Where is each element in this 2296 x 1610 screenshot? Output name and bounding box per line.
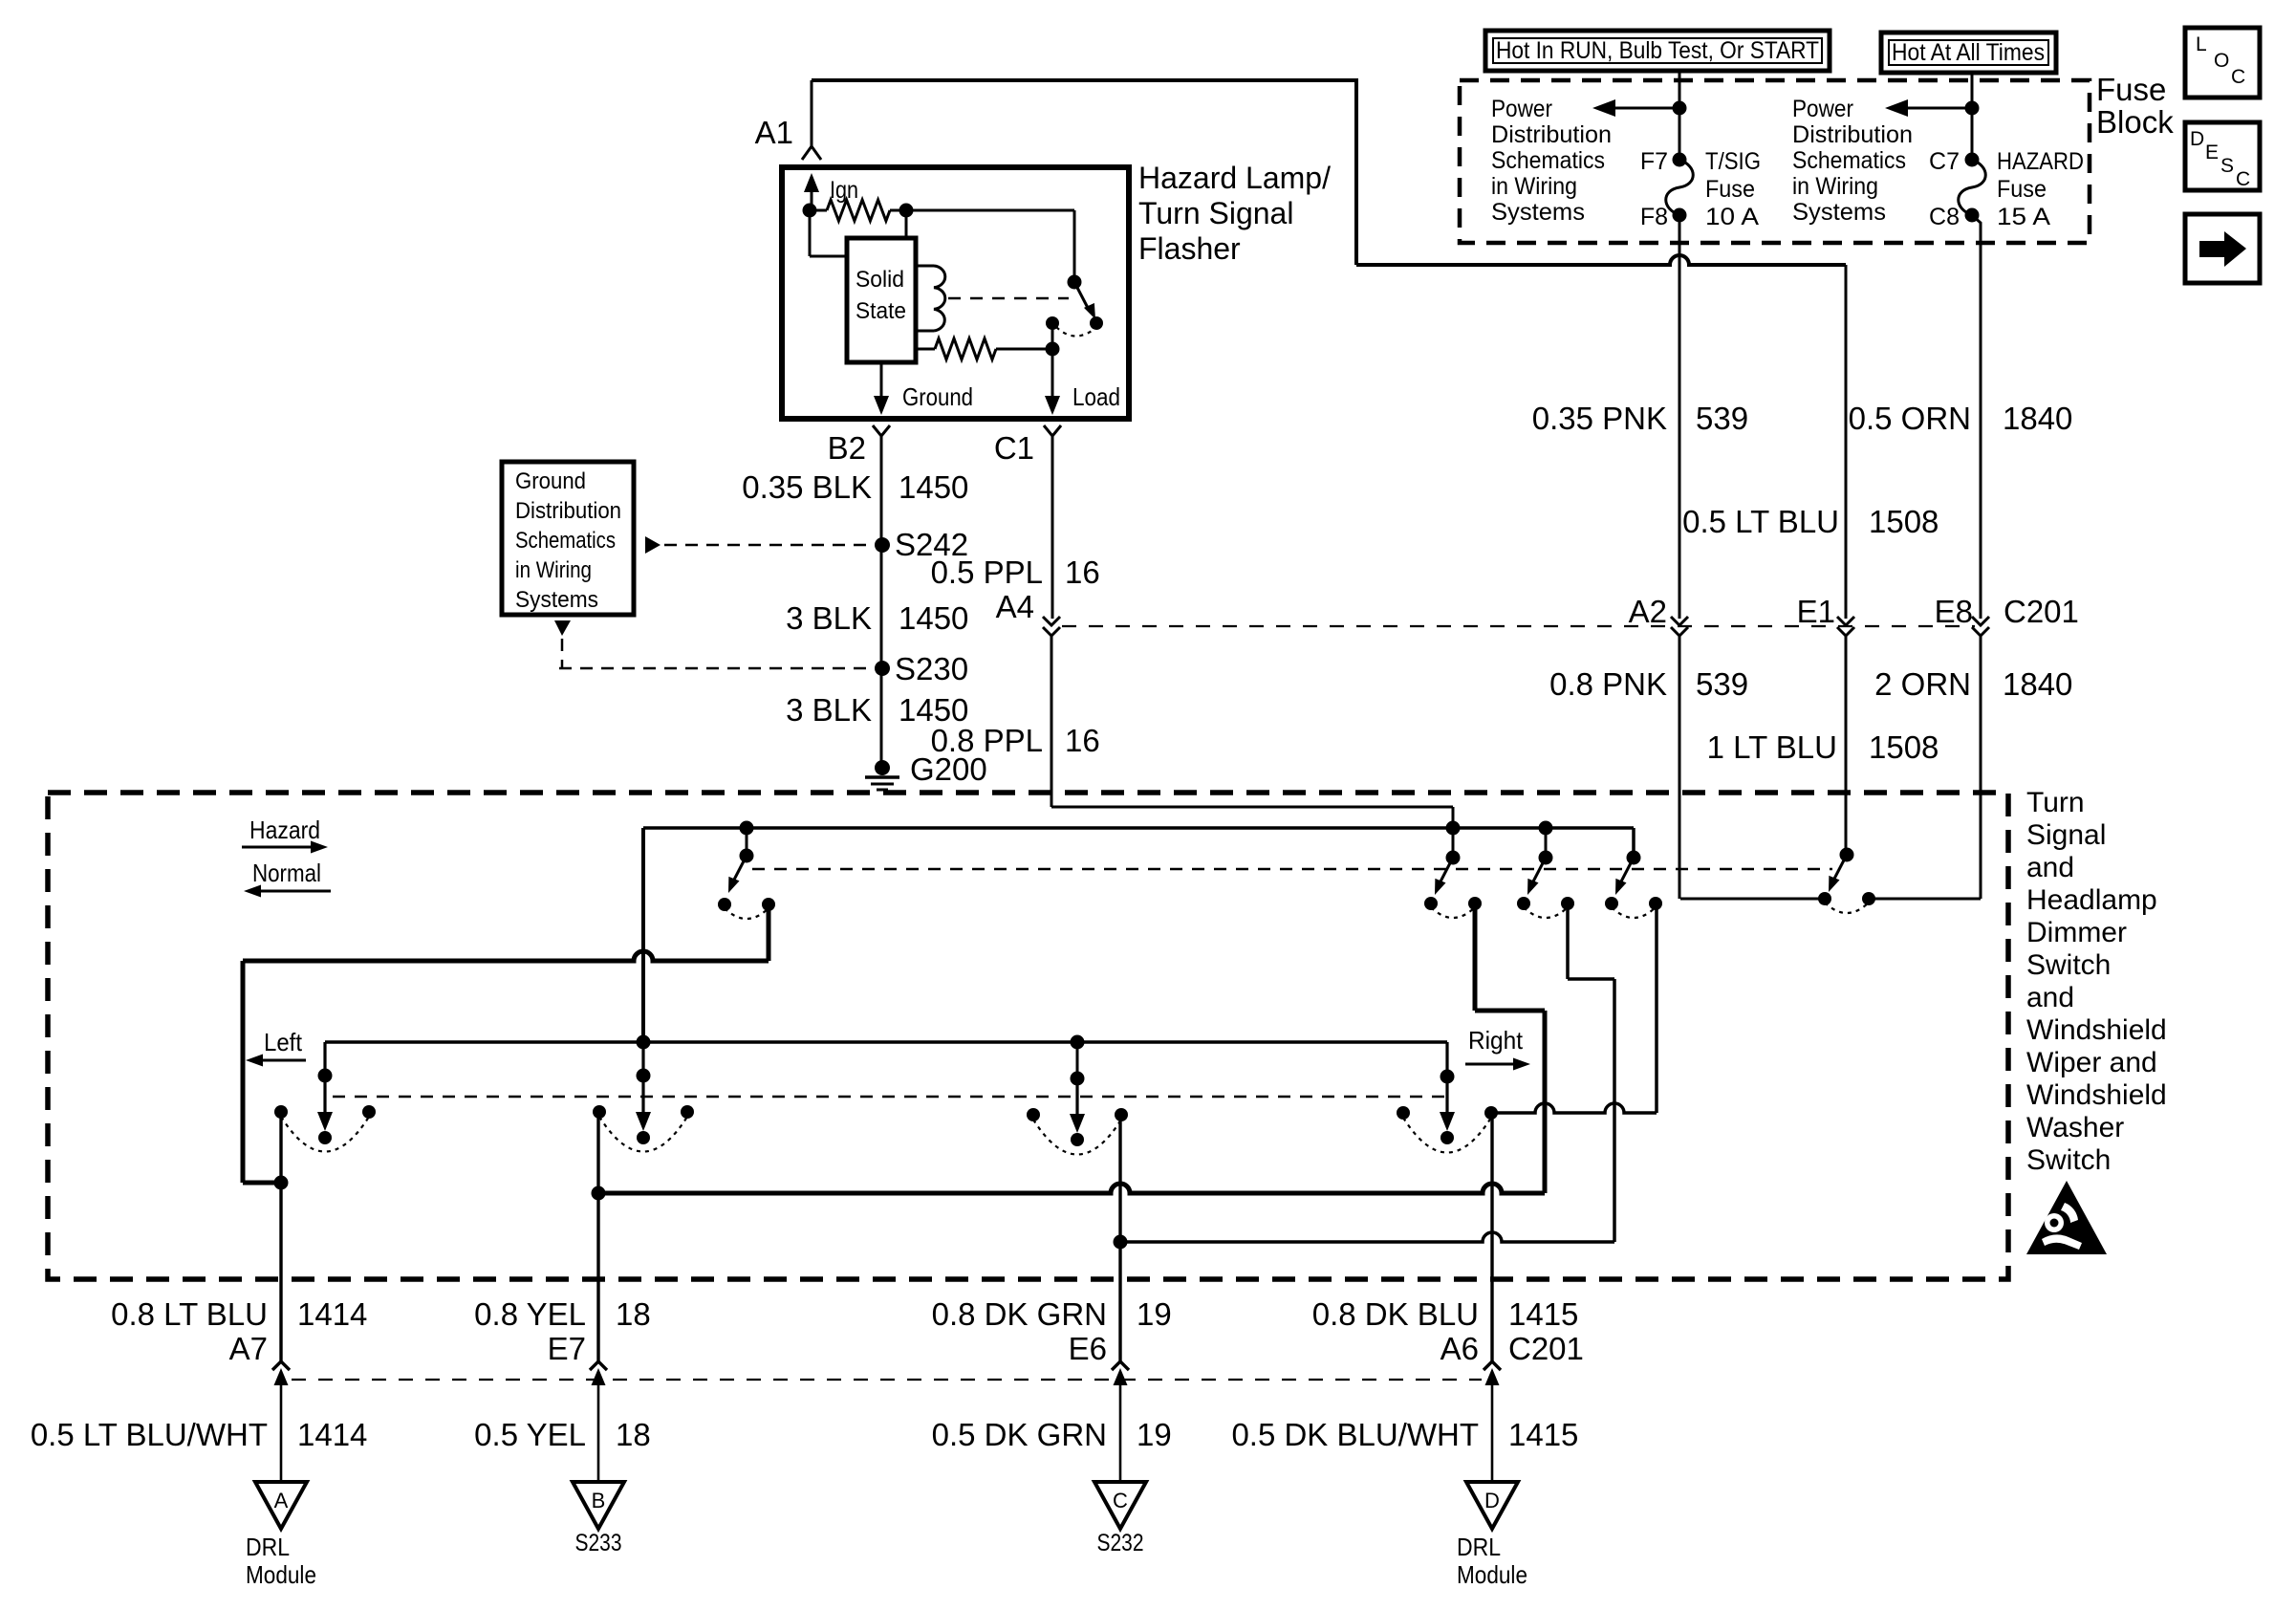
svg-text:in Wiring: in Wiring [1792,173,1878,200]
svg-text:A7: A7 [229,1331,268,1366]
svg-text:Left: Left [264,1028,303,1056]
svg-text:0.8 DK BLU: 0.8 DK BLU [1312,1296,1479,1332]
svg-text:Systems: Systems [515,587,598,613]
svg-text:T/SIG: T/SIG [1705,148,1761,175]
svg-text:0.8 PPL: 0.8 PPL [931,723,1043,758]
svg-text:1450: 1450 [899,469,968,505]
svg-text:16: 16 [1065,555,1100,590]
svg-text:1415: 1415 [1508,1417,1578,1452]
svg-text:0.5 YEL: 0.5 YEL [474,1417,586,1452]
svg-text:DRL: DRL [246,1533,290,1561]
svg-text:C8: C8 [1929,204,1960,230]
svg-text:B2: B2 [828,430,866,466]
svg-text:E7: E7 [548,1331,586,1366]
svg-text:Signal: Signal [2026,819,2106,851]
svg-text:2 ORN: 2 ORN [1874,666,1971,702]
svg-text:C: C [1113,1489,1128,1512]
svg-text:19: 19 [1137,1296,1172,1332]
svg-text:0.35 BLK: 0.35 BLK [742,469,872,505]
svg-text:539: 539 [1696,666,1748,702]
svg-text:S232: S232 [1097,1530,1144,1556]
svg-text:1415: 1415 [1508,1296,1578,1332]
svg-text:15 A: 15 A [1997,204,2050,230]
svg-text:Right: Right [1468,1026,1524,1055]
svg-text:DRL: DRL [1457,1533,1501,1561]
svg-text:Hot In RUN, Bulb Test, Or STAR: Hot In RUN, Bulb Test, Or START [1496,37,1819,64]
svg-text:18: 18 [616,1417,651,1452]
svg-text:F8: F8 [1640,204,1668,230]
svg-text:A4: A4 [996,589,1034,624]
svg-text:Flasher: Flasher [1138,231,1241,266]
svg-text:E8: E8 [1935,594,1973,629]
svg-text:Dimmer: Dimmer [2026,917,2127,948]
svg-text:Ground: Ground [515,468,586,494]
svg-text:in Wiring: in Wiring [1491,173,1577,200]
svg-text:Fuse: Fuse [1705,176,1755,203]
svg-text:Distribution: Distribution [515,498,621,524]
svg-text:Fuse: Fuse [1997,176,2047,203]
svg-text:E1: E1 [1797,594,1835,629]
svg-text:D: D [1484,1489,1500,1512]
svg-text:F7: F7 [1640,148,1668,175]
svg-text:1840: 1840 [2003,401,2072,436]
svg-text:Hot At All Times: Hot At All Times [1892,39,2045,66]
svg-text:1414: 1414 [297,1417,367,1452]
svg-text:A1: A1 [755,115,793,150]
svg-text:Fuse: Fuse [2096,72,2166,107]
svg-text:and: and [2026,982,2074,1013]
svg-text:D: D [2190,128,2204,150]
svg-text:Schematics: Schematics [1792,147,1906,174]
svg-text:Wiper and: Wiper and [2026,1047,2157,1078]
svg-text:16: 16 [1065,723,1100,758]
svg-text:L: L [2196,33,2207,55]
svg-text:Module: Module [246,1560,316,1589]
svg-text:Power: Power [1491,96,1552,122]
svg-text:Ground: Ground [902,382,973,411]
svg-text:S: S [2220,155,2234,177]
svg-text:A2: A2 [1629,594,1667,629]
svg-text:1508: 1508 [1869,729,1939,765]
svg-text:Block: Block [2096,104,2174,140]
svg-text:Distribution: Distribution [1491,121,1612,148]
svg-text:C201: C201 [1508,1331,1584,1366]
svg-text:C201: C201 [2004,594,2079,629]
svg-text:Distribution: Distribution [1792,121,1913,148]
svg-text:3 BLK: 3 BLK [786,692,872,728]
svg-text:E: E [2205,141,2219,163]
svg-text:State: State [856,298,906,324]
svg-text:E6: E6 [1069,1331,1107,1366]
svg-text:0.8 LT BLU: 0.8 LT BLU [111,1296,268,1332]
svg-text:A6: A6 [1440,1331,1479,1366]
svg-text:1840: 1840 [2003,666,2072,702]
svg-text:O: O [2214,50,2229,72]
svg-text:HAZARD: HAZARD [1997,148,2084,175]
svg-text:A: A [274,1489,289,1512]
svg-text:0.5 LT BLU: 0.5 LT BLU [1682,504,1839,539]
svg-text:0.5 DK BLU/WHT: 0.5 DK BLU/WHT [1231,1417,1479,1452]
svg-text:C: C [2236,168,2250,190]
svg-text:Headlamp: Headlamp [2026,884,2157,916]
svg-text:Switch: Switch [2026,949,2111,981]
svg-text:Hazard: Hazard [249,816,320,844]
svg-text:Washer: Washer [2026,1112,2124,1143]
svg-text:C1: C1 [994,430,1034,466]
svg-text:Systems: Systems [1792,199,1886,226]
svg-text:and: and [2026,852,2074,883]
svg-text:Switch: Switch [2026,1144,2111,1176]
svg-text:1414: 1414 [297,1296,367,1332]
svg-text:0.8 DK GRN: 0.8 DK GRN [932,1296,1107,1332]
svg-text:1508: 1508 [1869,504,1939,539]
svg-text:C: C [2231,66,2245,88]
svg-text:Turn: Turn [2026,787,2085,818]
svg-text:18: 18 [616,1296,651,1332]
svg-text:0.5 LT BLU/WHT: 0.5 LT BLU/WHT [31,1417,268,1452]
svg-text:0.5 PPL: 0.5 PPL [931,555,1043,590]
svg-text:in Wiring: in Wiring [515,557,592,583]
svg-text:S233: S233 [575,1530,622,1556]
svg-text:Schematics: Schematics [1491,147,1605,174]
svg-text:Schematics: Schematics [515,528,616,554]
svg-text:Hazard Lamp/: Hazard Lamp/ [1138,161,1331,195]
svg-text:Windshield: Windshield [2026,1079,2167,1111]
svg-text:0.8 YEL: 0.8 YEL [474,1296,586,1332]
svg-text:0.5 DK GRN: 0.5 DK GRN [932,1417,1107,1452]
svg-text:Windshield: Windshield [2026,1014,2167,1046]
svg-text:Power: Power [1792,96,1853,122]
svg-text:0.35 PNK: 0.35 PNK [1532,401,1667,436]
svg-text:1450: 1450 [899,600,968,636]
svg-text:Normal: Normal [252,859,321,887]
svg-text:3 BLK: 3 BLK [786,600,872,636]
svg-text:Ign: Ign [830,177,858,204]
svg-text:Solid: Solid [856,267,904,293]
svg-text:1 LT BLU: 1 LT BLU [1707,729,1837,765]
svg-text:Load: Load [1072,382,1120,411]
svg-text:10 A: 10 A [1705,204,1759,230]
svg-text:539: 539 [1696,401,1748,436]
svg-text:C7: C7 [1929,148,1960,175]
svg-text:B: B [592,1489,606,1512]
svg-text:0.5 ORN: 0.5 ORN [1849,401,1971,436]
svg-text:Module: Module [1457,1560,1527,1589]
svg-text:Turn Signal: Turn Signal [1138,196,1293,230]
svg-text:0.8 PNK: 0.8 PNK [1549,666,1667,702]
svg-text:S230: S230 [895,651,968,686]
svg-text:Systems: Systems [1491,199,1585,226]
svg-text:19: 19 [1137,1417,1172,1452]
